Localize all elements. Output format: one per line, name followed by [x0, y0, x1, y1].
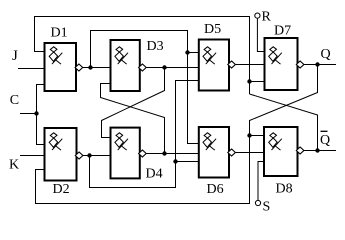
wire: C input [20, 113, 37, 115]
node: D2 output branch junction [87, 153, 91, 157]
bubble D7 [296, 61, 304, 68]
svg-text:J: J [12, 48, 18, 64]
gate D4 [111, 128, 140, 179]
gate D3 [111, 40, 140, 91]
ampersand symbol [49, 133, 62, 150]
gate D5 [199, 40, 229, 91]
ampersand symbol [203, 133, 216, 150]
wire: Q output [304, 64, 336, 66]
wire: D2 output to D4 input 2 [83, 155, 111, 157]
wire: D5 output to D7 input 2 [235, 64, 264, 66]
node: Q rail to D8 junction [247, 133, 251, 137]
svg-text:D5: D5 [204, 22, 221, 37]
terminal R [255, 13, 260, 18]
node: D6 input 3 junction [173, 159, 177, 163]
overbar of Q-bar [321, 130, 328, 132]
ampersand symbol [115, 47, 128, 64]
svg-text:D2: D2 [53, 182, 70, 197]
wire: J input [18, 68, 45, 70]
gate D1 [45, 43, 77, 91]
wire: Q feedback from Q output junction down-left to bottom rail and D2 input 3 [36, 65, 318, 204]
wire: stub to D6 input 3 [176, 161, 200, 163]
bubble D3 [139, 64, 147, 71]
node: D5 input 1 junction [185, 50, 189, 54]
svg-text:Q: Q [321, 47, 331, 62]
wire: Q-bar output [304, 150, 336, 152]
ampersand symbol [203, 47, 216, 64]
wire: D4 output to D6 input 2 [146, 153, 199, 155]
bubble D5 [228, 61, 236, 68]
bubble D8 [296, 147, 304, 154]
node: C branch junction [34, 111, 38, 115]
bubble D2 [75, 152, 83, 159]
wire: stub from Q rail to D8 input 1 [250, 135, 265, 137]
wire: D1 output branch up and over to D5 / D6 [91, 31, 200, 144]
ampersand symbol [115, 133, 128, 150]
svg-text:K: K [9, 158, 19, 173]
node: D4 output branch junction [162, 151, 166, 155]
gate D6 [199, 127, 229, 178]
wire: stub to D5 input 1 [188, 52, 200, 54]
wire: C vertical branch to D1 and D2 [37, 85, 46, 145]
wire: D1 output to D3 input 2 [83, 67, 111, 69]
node: D3 output branch junction [162, 65, 166, 69]
gate D7 [265, 38, 298, 90]
wire: stub from Q-bar rail to D7 input 3 [250, 81, 265, 83]
wire: K input [20, 155, 45, 157]
node: Q-bar output junction [315, 148, 319, 152]
svg-text:D3: D3 [147, 39, 164, 54]
svg-text:S: S [263, 200, 271, 215]
wire: Q-bar feedback top rail to D1 input 1 [35, 17, 250, 95]
wire: S input to D8 input 3 [258, 162, 264, 201]
ampersand symbol [269, 133, 282, 150]
bubble D1 [75, 64, 83, 71]
wire: D3 output cross-couple down to D4 input 1 [102, 68, 165, 138]
svg-text:Q: Q [320, 133, 330, 148]
wire: D2 output branch down and over to D6 / D5 [90, 81, 200, 188]
node: Q output junction [315, 62, 319, 66]
wire: D6 output to D8 input 2 [235, 152, 264, 154]
svg-text:D1: D1 [51, 26, 68, 41]
gate D2 [45, 128, 77, 181]
wire: D3 output to D5 input 2 [146, 67, 199, 69]
ampersand symbol [49, 47, 62, 64]
svg-text:D8: D8 [276, 182, 293, 197]
wire: D4 output cross-couple up to D3 input 3 [101, 84, 165, 154]
node: D1 output branch junction [88, 65, 92, 69]
bubble D4 [139, 150, 147, 157]
bubble D6 [228, 149, 236, 156]
svg-text:D7: D7 [274, 24, 291, 39]
svg-text:D4: D4 [146, 167, 163, 182]
svg-text:D6: D6 [207, 182, 224, 197]
ampersand symbol [269, 47, 282, 64]
node: Q-bar rail to D7 junction [247, 79, 251, 83]
svg-text:R: R [262, 10, 272, 25]
svg-text:C: C [10, 93, 19, 108]
terminal S [255, 200, 260, 205]
wire: R input to D7 input 1 [257, 18, 264, 51]
gate D8 [264, 127, 298, 176]
wire: Q-bar cross diagonal to Q-bar output junction [250, 94, 318, 151]
